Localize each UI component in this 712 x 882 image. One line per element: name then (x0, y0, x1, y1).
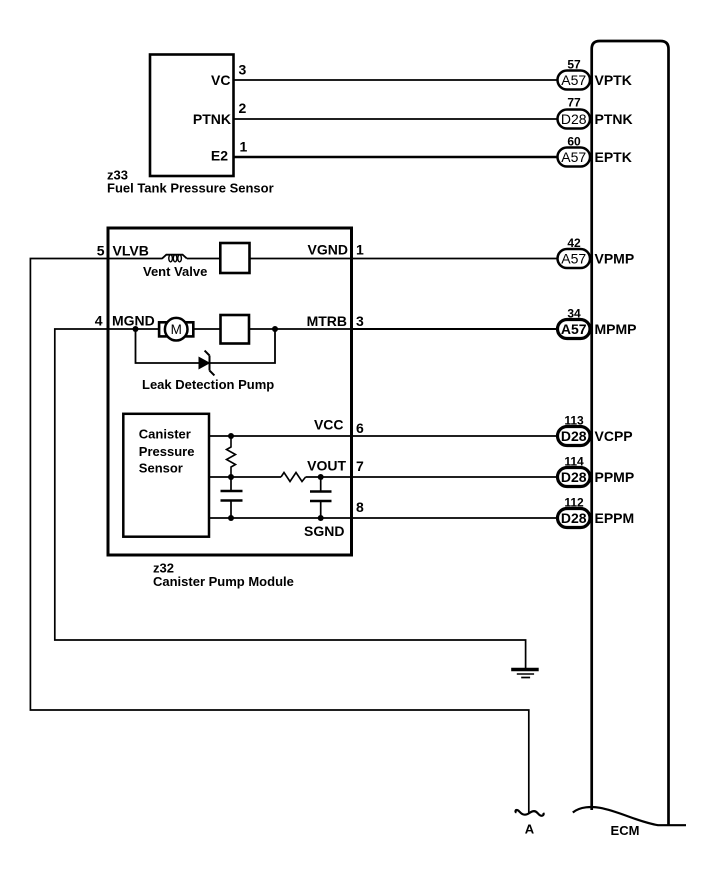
svg-text:VPMP: VPMP (595, 251, 635, 267)
svg-text:5: 5 (97, 243, 105, 259)
wire VLVB row inside module (110, 258, 163, 260)
svg-text:4: 4 (95, 313, 103, 329)
connector pin D28 VCPP (558, 427, 591, 446)
svg-text:1: 1 (356, 242, 364, 258)
svg-text:Vent Valve: Vent Valve (143, 264, 207, 279)
svg-text:D28: D28 (561, 428, 587, 444)
ECM connector shell (592, 41, 669, 825)
wire SGND to EPPM (353, 517, 558, 519)
capacitor C2 (310, 477, 332, 518)
svg-text:3: 3 (239, 62, 247, 78)
pin label PTNK (193, 111, 231, 127)
canister pressure sensor box (123, 414, 209, 537)
svg-text:VOUT: VOUT (307, 458, 346, 474)
ECM bottom break wave (573, 807, 686, 825)
wire VOUT row left (209, 476, 281, 478)
connector pin 57 number (567, 58, 581, 72)
pin number 4 (95, 313, 103, 329)
svg-text:Pressure: Pressure (139, 444, 195, 459)
wire diode loop right (210, 329, 276, 363)
svg-text:PTNK: PTNK (193, 111, 231, 127)
pin label VGND (308, 242, 348, 258)
svg-text:D28: D28 (561, 510, 587, 526)
label Leak Detection Pump (142, 377, 274, 392)
node SGND junction right (318, 515, 324, 521)
pin number 3 (356, 313, 364, 329)
wire MGND row to motor (110, 328, 160, 330)
canister pump module box z32 (108, 228, 352, 555)
label Canister Pump Module (153, 574, 294, 589)
wire VOUT row right (306, 476, 350, 478)
svg-text:Leak Detection Pump: Leak Detection Pump (142, 377, 274, 392)
node VOUT junction right (318, 474, 324, 480)
svg-text:Canister Pump Module: Canister Pump Module (153, 574, 294, 589)
svg-text:77: 77 (567, 96, 581, 110)
svg-text:1: 1 (240, 139, 248, 155)
label PPMP (595, 469, 635, 485)
resistor R2 horizontal (281, 473, 306, 482)
label VPMP (595, 251, 635, 267)
pin number 6 (356, 420, 364, 436)
connector pin A57 MPMP (558, 320, 591, 339)
svg-text:M: M (171, 322, 182, 337)
pin number 5 (97, 243, 105, 259)
connector pin A57 EPTK (558, 148, 591, 167)
pin number 1 (240, 139, 248, 155)
svg-text:D28: D28 (561, 469, 587, 485)
label z33 (107, 168, 128, 183)
connector pin D28 PTNK (558, 110, 591, 129)
svg-text:6: 6 (356, 420, 364, 436)
pin label VCC (314, 417, 344, 433)
svg-text:A57: A57 (561, 321, 587, 337)
label Canister Pressure Sensor (139, 426, 195, 475)
label VPTK (595, 72, 632, 88)
wire diode loop left (136, 329, 200, 363)
connector pin A57 VPTK (558, 71, 591, 90)
svg-text:VLVB: VLVB (113, 243, 149, 259)
label MPMP (595, 321, 637, 337)
svg-text:EPTK: EPTK (595, 149, 632, 165)
svg-text:VGND: VGND (308, 242, 348, 258)
connector pin 77 number (567, 96, 581, 110)
node MGND junction (133, 326, 139, 332)
connector pin D28 EPPM (558, 509, 591, 528)
label VCPP (595, 428, 633, 444)
label PTNK (595, 111, 633, 127)
label Vent Valve (143, 264, 207, 279)
label ECM (611, 823, 640, 838)
label A (525, 822, 535, 837)
svg-text:A57: A57 (561, 72, 586, 88)
wire VCC to VCPP (353, 435, 558, 437)
pin number 3 (239, 62, 247, 78)
capacitor C1 (221, 477, 243, 518)
pin label MTRB (307, 313, 347, 329)
wire VC to VPTK (235, 79, 559, 81)
label z32 (153, 561, 174, 576)
pin label SGND (304, 523, 344, 539)
connector pin 60 number (567, 135, 581, 149)
ground (511, 670, 539, 678)
pin number 7 (356, 458, 364, 474)
svg-text:PPMP: PPMP (595, 469, 635, 485)
connector pin D28 PPMP (558, 468, 591, 487)
wire VGND to VPMP (353, 258, 558, 260)
zener diode D1 (199, 351, 214, 376)
pin label VOUT (307, 458, 346, 474)
wire pump box to MTRB pin (249, 328, 350, 330)
pin number 8 (356, 499, 364, 515)
svg-text:SGND: SGND (304, 523, 344, 539)
connector pin 34 number (567, 307, 581, 321)
wire VCC row (209, 435, 350, 437)
pin label MGND (112, 313, 155, 329)
svg-text:MGND: MGND (112, 313, 155, 329)
fuel tank pressure sensor box z33 (150, 55, 234, 177)
svg-text:PTNK: PTNK (595, 111, 633, 127)
svg-text:3: 3 (356, 313, 364, 329)
svg-text:Canister: Canister (139, 426, 191, 441)
label Fuel Tank Pressure Sensor (107, 181, 274, 196)
wire SGND row (209, 517, 350, 519)
wire coil to valve box (187, 258, 221, 260)
connector pin 113 number (564, 414, 584, 428)
connector pin A57 VPMP (558, 249, 591, 268)
leak detection pump motor M (159, 318, 193, 341)
vent valve coil (162, 255, 187, 262)
wire VLVB to node A (30, 259, 528, 814)
svg-text:A: A (525, 822, 535, 837)
resistor R1 vertical (227, 436, 236, 477)
node VCC junction (228, 433, 234, 439)
wire E2 to EPTK (235, 156, 559, 159)
pin label VC (211, 72, 230, 88)
node SGND junction left (228, 515, 234, 521)
leak detection pump body square (221, 315, 250, 344)
vent valve body square (220, 243, 249, 273)
svg-text:A57: A57 (561, 149, 586, 165)
node VOUT junction left (228, 474, 234, 480)
svg-text:Sensor: Sensor (139, 460, 183, 475)
label EPPM (595, 510, 635, 526)
connector pin 42 number (567, 236, 581, 250)
node MTRB junction (272, 326, 278, 332)
wire valve box to VGND pin (250, 258, 351, 260)
svg-text:8: 8 (356, 499, 364, 515)
pin label E2 (211, 148, 228, 164)
wire MTRB to MPMP (353, 328, 558, 330)
pin label VLVB (113, 243, 149, 259)
svg-text:EPPM: EPPM (595, 510, 635, 526)
wire VOUT to PPMP (353, 476, 558, 478)
svg-text:E2: E2 (211, 148, 228, 164)
wire PTNK to PTNK (235, 118, 559, 120)
svg-text:Fuel Tank Pressure Sensor: Fuel Tank Pressure Sensor (107, 181, 274, 196)
svg-text:7: 7 (356, 458, 364, 474)
svg-text:VCPP: VCPP (595, 428, 633, 444)
connector pin 114 number (564, 455, 584, 469)
svg-text:VCC: VCC (314, 417, 344, 433)
svg-text:VC: VC (211, 72, 230, 88)
wire motor to pump box (193, 328, 220, 330)
label EPTK (595, 149, 632, 165)
pin number 1 (356, 242, 364, 258)
svg-text:D28: D28 (561, 111, 587, 127)
svg-text:MPMP: MPMP (595, 321, 637, 337)
svg-text:ECM: ECM (611, 823, 640, 838)
pin number 2 (239, 100, 247, 116)
node A break symbol (516, 810, 544, 816)
wire MGND to ground (55, 329, 526, 668)
svg-text:A57: A57 (561, 250, 586, 266)
svg-text:2: 2 (239, 100, 247, 116)
svg-text:VPTK: VPTK (595, 72, 632, 88)
connector pin 112 number (564, 496, 584, 510)
svg-text:MTRB: MTRB (307, 313, 347, 329)
